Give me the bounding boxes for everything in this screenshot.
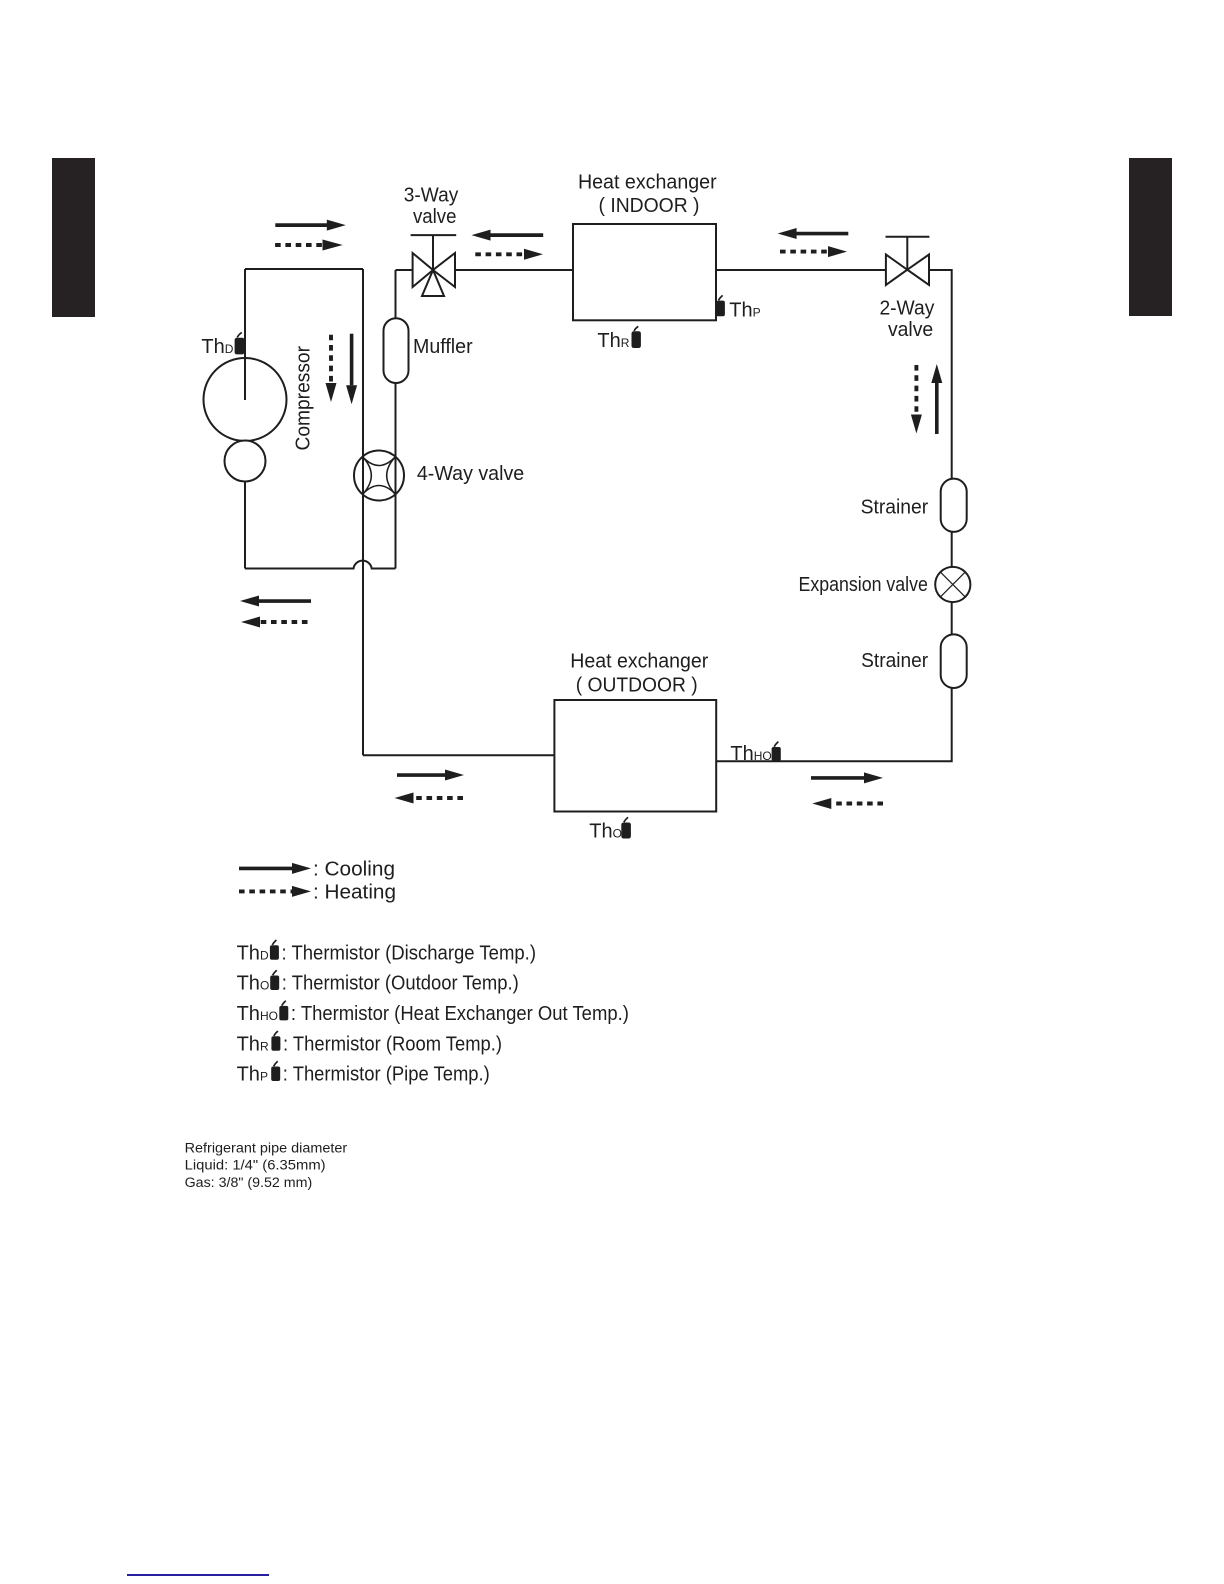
- 4-way valve inner arcs: [363, 457, 396, 495]
- thermistor icon ThHO: [772, 742, 781, 762]
- svg-text:Gas: 3/8" (9.52 mm): Gas: 3/8" (9.52 mm): [185, 1175, 313, 1190]
- wire: indoor heat exchanger to 2-way valve: [716, 269, 886, 271]
- wire: 3-way valve to indoor heat exchanger: [455, 269, 573, 271]
- strainer capsule lower: [941, 634, 967, 688]
- svg-text:: Thermistor (Room Temp.): : Thermistor (Room Temp.): [283, 1033, 502, 1055]
- arrow dashed down (heating, above strainer): [911, 365, 922, 434]
- outdoor heat exchanger box: [554, 700, 716, 812]
- thermistor icon ThD: [235, 332, 245, 354]
- expansion valve circle with X: [935, 567, 970, 602]
- wire: expansion valve to strainer: [951, 602, 953, 635]
- 2-way valve bowtie right triangle: [907, 255, 929, 286]
- left black sidebar block: [52, 158, 95, 317]
- wire: 3-way valve left stub: [396, 269, 413, 271]
- legend row ThP: [237, 1061, 490, 1085]
- legend arrow dashed right (Heating): [239, 886, 311, 897]
- svg-text:: Thermistor (Pipe Temp.): : Thermistor (Pipe Temp.): [283, 1064, 490, 1086]
- arrow dashed right (heating, right of indoor heat exchanger): [780, 246, 847, 257]
- wire: compressor bottom pipe: [244, 482, 246, 569]
- 3-way valve bowtie right triangle: [433, 253, 455, 287]
- svg-text:Expansion valve: Expansion valve: [799, 574, 928, 596]
- thermistor icon ThP: [716, 295, 725, 316]
- 2-way valve stem: [906, 237, 908, 270]
- legend row ThO: [237, 970, 519, 994]
- wire: strainer down and left into outdoor heat exchanger: [716, 688, 952, 761]
- svg-text:valve: valve: [413, 206, 457, 228]
- arrow dashed left (heating, left of outdoor heat exchanger): [395, 793, 464, 804]
- wire: 3-way valve corner down to muffler top: [395, 270, 397, 318]
- svg-text:valve: valve: [888, 319, 933, 341]
- svg-text:4-Way valve: 4-Way valve: [417, 463, 524, 485]
- wire: compressor loop top horizontal: [245, 268, 363, 270]
- arrow dashed right (heating, right of 3-way valve): [475, 249, 543, 260]
- legend row ThR: [237, 1031, 502, 1055]
- svg-text:3-Way: 3-Way: [404, 185, 459, 207]
- svg-text:Refrigerant pipe diameter: Refrigerant pipe diameter: [185, 1140, 348, 1155]
- svg-text:Heat exchanger: Heat exchanger: [578, 172, 717, 194]
- footer blue rule: [127, 1574, 269, 1576]
- compressor pipe stub inside circle: [244, 358, 246, 400]
- svg-text:Heat exchanger: Heat exchanger: [570, 651, 708, 673]
- indoor heat exchanger box: [573, 224, 716, 320]
- 4-way valve circle: [354, 451, 404, 501]
- legend row ThD: [237, 940, 536, 964]
- arrow solid left (cooling, right of indoor heat exchanger): [778, 228, 849, 239]
- arrow solid left (cooling, right of 3-way valve): [472, 230, 544, 241]
- wire: vertical pipe to outdoor heat exchanger left side: [363, 754, 554, 756]
- 3-way valve stem: [432, 235, 434, 270]
- arrow solid up (cooling, above strainer): [931, 364, 942, 434]
- 3-way valve top bar: [411, 234, 457, 236]
- svg-text:: Cooling: : Cooling: [313, 859, 395, 881]
- svg-text:Strainer: Strainer: [861, 650, 928, 672]
- 3-way valve bowtie left triangle: [413, 253, 433, 287]
- right black sidebar block: [1129, 158, 1172, 316]
- thermistor icon ThO: [621, 817, 631, 838]
- arrow solid left (cooling, below compressor loop): [240, 596, 311, 607]
- svg-text:Muffler: Muffler: [413, 336, 473, 358]
- arrow solid right (cooling, left of outdoor heat exchanger): [397, 770, 464, 781]
- svg-text:( INDOOR ): ( INDOOR ): [599, 195, 700, 217]
- thermistor icon ThR: [632, 326, 641, 348]
- wire: loop right vertical down to outdoor heat exchanger level: [362, 269, 364, 755]
- svg-text:: Thermistor (Discharge Temp.): : Thermistor (Discharge Temp.): [282, 942, 537, 964]
- svg-text:Compressor: Compressor: [293, 346, 315, 451]
- arrow dashed left (heating, below compressor loop): [241, 617, 308, 628]
- 2-way valve bowtie left triangle: [886, 255, 907, 286]
- 2-way valve top bar: [886, 236, 930, 238]
- compressor main circle: [204, 358, 287, 441]
- svg-text:( OUTDOOR ): ( OUTDOOR ): [576, 675, 698, 697]
- strainer capsule upper: [941, 479, 967, 532]
- wire: loop bottom horizontal with hop over vertical pipe: [245, 561, 396, 569]
- wire: muffler bottom through 4-way valve to loop bottom corner: [395, 383, 397, 569]
- wire: compressor top pipe into compressor center: [244, 269, 246, 400]
- wire: 2-way valve right and down to strainer: [929, 270, 952, 479]
- arrow solid right (cooling, right of outdoor heat exchanger): [811, 772, 883, 783]
- legend arrow solid right (Cooling): [239, 863, 311, 874]
- 3-way valve bottom triangle: [422, 270, 444, 296]
- svg-text:Strainer: Strainer: [861, 496, 929, 518]
- wire: strainer to expansion valve: [951, 532, 953, 567]
- svg-text:Liquid: 1/4" (6.35mm): Liquid: 1/4" (6.35mm): [185, 1157, 326, 1172]
- arrow solid down (cooling, inside compressor loop): [346, 334, 357, 405]
- arrow dashed right (heating, above compressor loop): [275, 240, 343, 251]
- svg-text:: Heating: : Heating: [313, 881, 396, 903]
- arrow dashed left (heating, right of outdoor heat exchanger): [812, 798, 883, 809]
- svg-text:: Thermistor (Outdoor Temp.): : Thermistor (Outdoor Temp.): [282, 973, 519, 995]
- legend row ThHO: [237, 1001, 629, 1025]
- note refrigerant pipe diameter: [185, 1140, 348, 1190]
- svg-text:2-Way: 2-Way: [879, 298, 934, 320]
- svg-text:: Thermistor (Heat Exchanger O: : Thermistor (Heat Exchanger Out Temp.): [291, 1003, 629, 1025]
- arrow dashed down (heating, inside compressor loop): [326, 335, 337, 402]
- compressor small circle: [225, 441, 266, 482]
- arrow solid right (cooling, above compressor loop): [275, 220, 346, 231]
- muffler capsule: [384, 318, 409, 383]
